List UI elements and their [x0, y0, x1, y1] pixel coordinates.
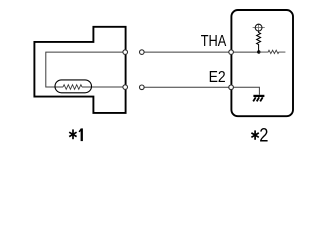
- svg-text:E2: E2: [209, 69, 226, 86]
- svg-text:2: 2: [259, 124, 268, 145]
- svg-text:THA: THA: [201, 33, 227, 50]
